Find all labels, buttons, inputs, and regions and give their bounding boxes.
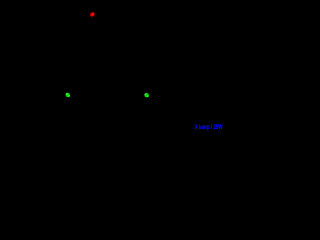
LED D2 (green, lit) [65, 93, 70, 98]
svg-text:X lamp / 25W: X lamp / 25W [195, 124, 224, 131]
circuit canvas background [0, 0, 225, 135]
LED D3 (green, lit) [144, 93, 149, 98]
LED D1 (red, lit) [90, 12, 95, 17]
